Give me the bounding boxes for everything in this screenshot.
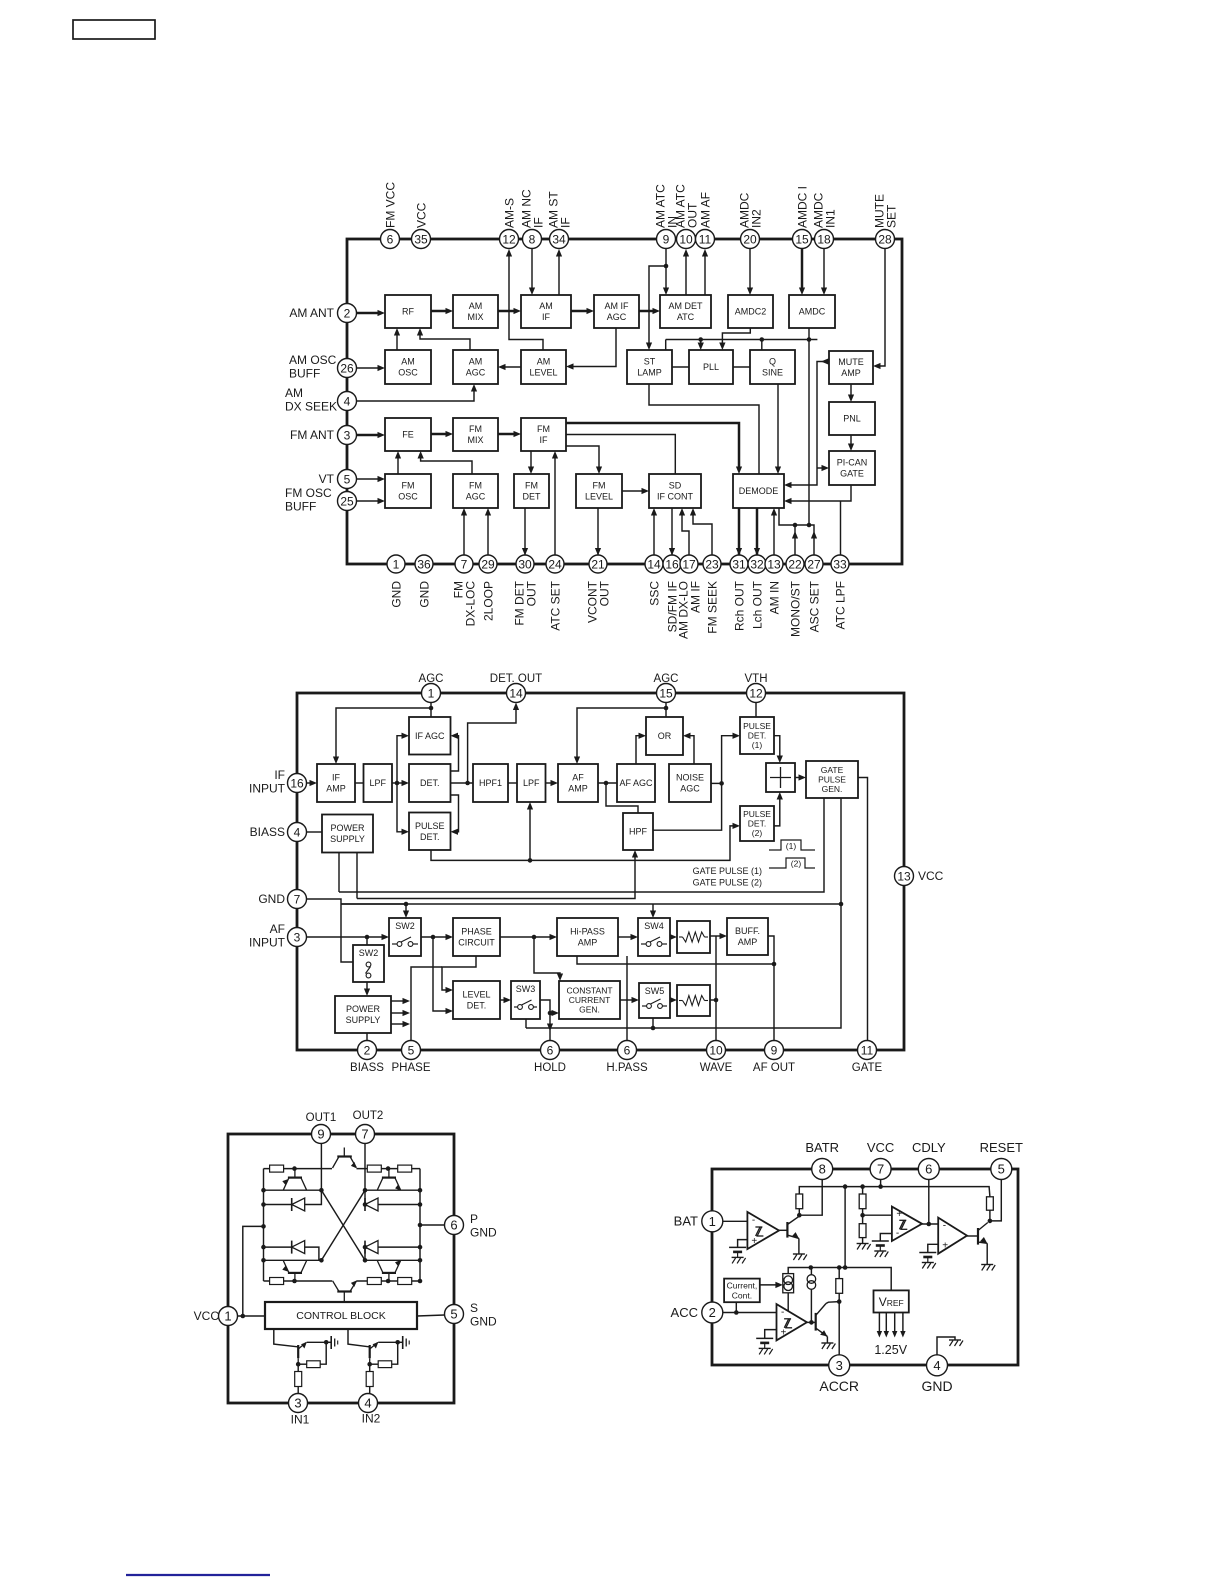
svg-text:AF: AF <box>572 773 584 783</box>
svg-text:23: 23 <box>705 557 719 571</box>
pin 7 OUT2 <box>356 1125 375 1144</box>
svg-text:LEVEL: LEVEL <box>529 368 557 378</box>
svg-text:AMP: AMP <box>738 937 758 947</box>
wire IF AMP to LPF <box>355 782 364 784</box>
diode D3 <box>292 1241 305 1254</box>
block LPF <box>364 764 393 802</box>
wire pin18 to AMDC <box>823 249 825 291</box>
wire Hi-PASS AMP to af out net <box>577 956 774 964</box>
transistor IN1 <box>298 1342 307 1364</box>
current source CS1 <box>783 1274 794 1293</box>
svg-text:AMDC: AMDC <box>799 307 826 317</box>
svg-text:LPF: LPF <box>369 778 386 788</box>
wire pin1 VCC to CONTROL BLOCK <box>238 1315 266 1317</box>
svg-text:AM DET: AM DET <box>668 301 703 311</box>
block FM DET <box>514 474 549 508</box>
wire R5 to pin3 ACCR <box>838 1293 840 1354</box>
svg-text:AMDC I: AMDC I <box>795 186 809 228</box>
svg-text:12: 12 <box>749 686 763 700</box>
svg-text:SSC: SSC <box>647 581 661 606</box>
wire pin17 to SD IF CONT <box>682 512 689 560</box>
block PULSE DET. (2) <box>740 806 774 841</box>
svg-text:GATE: GATE <box>852 1062 883 1074</box>
wire to diode D1 <box>264 1204 292 1206</box>
wire MUTE AMP to DEMODE <box>788 362 829 486</box>
current source CS2 <box>807 1275 816 1290</box>
wire pin25 to FM OSC <box>357 500 382 502</box>
svg-text:GND: GND <box>389 581 403 608</box>
capacitor ref A4 <box>756 1338 773 1348</box>
wire PHASE CIRCUIT to LEVEL DET <box>442 956 476 990</box>
svg-text:INPUT: INPUT <box>249 782 286 796</box>
svg-text:DEMODE: DEMODE <box>739 486 779 496</box>
pin 35 VCC <box>412 230 431 249</box>
wire to LPF bottom <box>529 806 531 860</box>
label AM-S <box>502 198 516 228</box>
wire PNL to PI-CAN GATE <box>850 435 852 447</box>
capacitor ref A3 ground <box>922 1263 936 1269</box>
transistor Q2 <box>978 1223 988 1245</box>
transistor Q4 left-bottom <box>282 1261 306 1281</box>
diode D4 <box>365 1241 378 1254</box>
wire bus to POWER SUPPLY <box>338 853 340 893</box>
svg-text:GND: GND <box>417 581 431 608</box>
pin 2 BIASS <box>358 1041 377 1060</box>
pin 2 ACC <box>702 1302 723 1323</box>
svg-text:AM: AM <box>537 357 551 367</box>
junction VCC <box>241 1314 246 1319</box>
wire pin4 GND lead <box>937 1337 955 1355</box>
svg-text:2: 2 <box>344 306 351 320</box>
pin 7 VCC <box>870 1159 891 1180</box>
wire pin5 VT to FM OSC <box>357 478 382 480</box>
wire Q3 emitter to ground <box>826 1337 828 1344</box>
svg-text:DX SEEK: DX SEEK <box>285 400 337 414</box>
resistor top-right 2 <box>398 1165 412 1172</box>
label AM DX-LO AM IF <box>677 581 703 639</box>
svg-text:AGC: AGC <box>466 368 486 378</box>
svg-text:AM: AM <box>469 301 483 311</box>
wire OUT2 lead <box>364 1144 366 1191</box>
pin 5 VT <box>338 470 357 489</box>
svg-text:POWER: POWER <box>346 1004 381 1014</box>
wire diode D1 out <box>305 1190 322 1204</box>
arrows POWER SUPPLY outputs <box>391 998 410 1027</box>
svg-text:13: 13 <box>767 557 781 571</box>
wire resistor to BUFF AMP <box>710 935 723 937</box>
svg-text:ATC SET: ATC SET <box>548 580 562 630</box>
svg-text:AMP: AMP <box>578 938 598 948</box>
block MUTE AMP <box>829 351 873 384</box>
wire AF out to HPF <box>606 783 638 813</box>
svg-text:5: 5 <box>344 472 351 486</box>
svg-text:GEN.: GEN. <box>822 784 843 794</box>
pin 26 AM OSC BUFF <box>338 359 357 378</box>
comparator A4 <box>777 1304 807 1340</box>
wire pin22 MONO/ST <box>794 525 796 560</box>
svg-text:IN1: IN1 <box>824 209 838 228</box>
svg-text:GND: GND <box>470 1315 497 1329</box>
wire AF AGC to OR <box>636 736 642 764</box>
svg-text:8: 8 <box>819 1162 826 1177</box>
wire pin7 VCC lead <box>880 1180 882 1187</box>
svg-text:S: S <box>470 1301 478 1315</box>
IC4 package outline <box>712 1169 1018 1365</box>
ground pin4 <box>949 1340 963 1346</box>
svg-text:PULSE: PULSE <box>818 775 846 785</box>
wire pin16 to IF AMP <box>307 782 314 784</box>
wire FM MIX to FM IF <box>498 433 517 436</box>
block GATE PULSE GEN. <box>806 761 858 798</box>
label ATC SET <box>548 580 562 630</box>
wire bus to ST LAMP <box>665 340 667 351</box>
wire FM IF to FM LEVEL <box>566 446 599 470</box>
wire A2 to A3 <box>922 1223 938 1225</box>
wire to HPF bottom <box>357 854 635 899</box>
wire SD IF CONT to pin16 <box>671 508 673 556</box>
pin 4 AM DX SEEK <box>338 392 357 411</box>
junction AGC <box>429 706 434 711</box>
svg-text:AGC: AGC <box>607 312 627 322</box>
svg-text:4: 4 <box>933 1358 940 1373</box>
junction CDLY <box>927 1222 932 1227</box>
label FM DX-LOC <box>452 581 478 627</box>
wire diode D2 out <box>378 1204 420 1206</box>
svg-text:RESET: RESET <box>980 1140 1023 1155</box>
wire tap to A2 <box>863 1214 892 1216</box>
svg-text:SW2: SW2 <box>359 948 379 958</box>
svg-text:7: 7 <box>361 1127 368 1142</box>
svg-text:+: + <box>751 1236 757 1247</box>
svg-text:BAT: BAT <box>674 1214 698 1229</box>
svg-text:GND: GND <box>470 1226 497 1240</box>
wire FM DET to pin30 <box>524 508 526 556</box>
svg-text:PULSE: PULSE <box>743 809 771 819</box>
svg-text:IF: IF <box>542 312 551 322</box>
junction AMDC mono bus <box>807 523 812 528</box>
junction A4 out <box>809 1320 814 1325</box>
wire to CONSTANT CURRENT GEN <box>534 937 560 977</box>
comparator A1 <box>747 1212 779 1249</box>
pin 32 Lch OUT <box>748 555 766 573</box>
junction hold <box>548 1011 553 1016</box>
transistor Q3 <box>816 1304 828 1337</box>
wire SW4 to resistor <box>670 936 673 938</box>
pin 9 AF OUT <box>765 1041 784 1060</box>
block POWER SUPPLY <box>322 815 373 853</box>
pin 11 GATE <box>858 1041 877 1060</box>
pin 13 AM IN <box>765 555 783 573</box>
wire A4 ref input <box>765 1330 777 1339</box>
diode D1 <box>292 1198 305 1211</box>
block PULSE DET. <box>409 813 451 851</box>
svg-text:AM IF: AM IF <box>605 301 630 311</box>
wire pin24 ATC SET to FM IF <box>554 455 556 560</box>
pin 6 FM VCC <box>381 230 400 249</box>
wire gnd stub <box>341 903 406 905</box>
label P GND <box>470 1212 497 1240</box>
wire AMDC down <box>808 328 810 525</box>
svg-text:FM: FM <box>593 481 606 491</box>
switch SW2 <box>389 918 421 956</box>
svg-text:32: 32 <box>750 557 764 571</box>
wire sum to GATE PULSE GEN <box>795 777 802 779</box>
resistor block 2 <box>677 985 710 1016</box>
svg-text:HPF: HPF <box>629 827 648 837</box>
block SD IF CONT <box>649 474 701 508</box>
pin 3 IN1 <box>289 1394 308 1413</box>
wire diode D4 tap <box>364 1247 366 1260</box>
junction divider tap <box>860 1213 865 1218</box>
label IF INPUT <box>249 768 286 796</box>
svg-text:17: 17 <box>682 557 696 571</box>
junction bus Q SINE <box>760 337 765 342</box>
wire pin1 AGC to IF AGC <box>430 693 432 717</box>
svg-text:14: 14 <box>509 686 523 700</box>
svg-text:AGC: AGC <box>466 492 486 502</box>
junction af out <box>772 962 777 967</box>
svg-text:6: 6 <box>387 232 394 246</box>
label AMDC IN1 <box>812 192 838 228</box>
wire lower rail <box>788 1268 891 1291</box>
svg-text:AM OSC: AM OSC <box>289 353 337 367</box>
junction AF input <box>365 935 370 940</box>
svg-text:GATE PULSE (1): GATE PULSE (1) <box>693 866 762 876</box>
transistor Q1 <box>787 1216 799 1238</box>
wire ctrl to SW5 <box>652 1018 654 1028</box>
pin 34 AM ST IF <box>550 230 569 249</box>
junction top-right <box>386 1166 391 1171</box>
junction left rail tap <box>261 1224 266 1229</box>
footer rule (blue) <box>126 1574 270 1576</box>
block PLL <box>689 350 733 384</box>
transistor Q5 right-bottom <box>377 1260 401 1281</box>
wire SW3 to pin6 HOLD <box>540 1000 550 1050</box>
svg-text:INPUT: INPUT <box>249 936 286 950</box>
wire pin3 to FE <box>357 434 382 437</box>
wire Q3 collector <box>826 1302 839 1304</box>
transistor Q3 right-top <box>377 1169 401 1191</box>
block DET. <box>409 764 451 802</box>
wire ST LAMP to DEMODE <box>649 384 759 474</box>
svg-text:Q: Q <box>769 357 776 367</box>
wire pin7 to FM AGC <box>463 512 465 560</box>
svg-text:IF: IF <box>332 773 341 783</box>
wire FM AGC to FE <box>421 455 472 474</box>
wire FM IF to FM DET <box>530 451 532 470</box>
svg-text:OUT1: OUT1 <box>306 1112 337 1124</box>
svg-text:AMDC2: AMDC2 <box>735 307 767 317</box>
wire pin28 MUTE SET to MUTE AMP <box>877 249 885 366</box>
svg-text:OUT: OUT <box>525 580 539 606</box>
label FM SEEK <box>705 581 719 634</box>
block LPF <box>517 764 546 802</box>
wire R4 to Q2 <box>989 1210 991 1221</box>
wire PULSE DET 1 to sum <box>774 736 780 759</box>
block AF AGC <box>617 764 655 802</box>
wire Q SINE to DEMODE <box>777 384 779 470</box>
svg-text:MIX: MIX <box>467 312 483 322</box>
wire R1 to Q1 collector <box>798 1209 800 1216</box>
wire pin1 BAT to A1 <box>723 1220 748 1222</box>
arrows VREF outputs <box>877 1313 906 1338</box>
wire AM DET ATC to pin11 <box>704 253 706 295</box>
svg-text:PULSE: PULSE <box>415 821 445 831</box>
svg-text:SD: SD <box>669 481 682 491</box>
svg-text:Hi-PASS: Hi-PASS <box>570 927 605 937</box>
svg-text:4: 4 <box>364 1396 371 1411</box>
svg-text:RF: RF <box>402 307 414 317</box>
block AM AGC <box>453 350 498 384</box>
wire FE to FM MIX <box>431 433 449 436</box>
pin 23 FM SEEK <box>703 555 721 573</box>
block LEVEL DET. <box>453 981 500 1019</box>
wire AM DET ATC to pin10 <box>685 253 687 295</box>
svg-text:AMP: AMP <box>841 368 861 378</box>
block POWER SUPPLY <box>335 996 391 1033</box>
junction base IN1 <box>296 1362 301 1367</box>
pin 16 SD/FM IF <box>663 555 681 573</box>
wire rail to CS2 <box>810 1269 812 1275</box>
svg-text:FM: FM <box>525 481 538 491</box>
svg-text:6: 6 <box>925 1162 932 1177</box>
junction ACCR <box>837 1299 842 1304</box>
wire FM LEVEL to pin21 <box>597 508 599 556</box>
junction top-left <box>292 1166 297 1171</box>
wire top left run <box>264 1168 333 1170</box>
svg-text:AM-S: AM-S <box>502 198 516 228</box>
svg-text:OSC: OSC <box>398 492 418 502</box>
junction CS2 <box>809 1265 814 1270</box>
pin 8 AM NC IF <box>523 230 542 249</box>
svg-text:6: 6 <box>450 1218 457 1233</box>
label AF INPUT <box>249 922 286 950</box>
svg-text:-: - <box>896 1228 899 1239</box>
junction gate bus <box>839 902 844 907</box>
wire diode D3 out <box>305 1247 319 1260</box>
wire Q1 emitter to ground <box>798 1238 800 1254</box>
resistor R2 <box>859 1194 866 1209</box>
svg-text:AGC: AGC <box>419 673 444 685</box>
arrow pin27 ASC SET <box>811 531 817 539</box>
summing node <box>766 763 795 792</box>
svg-text:AM: AM <box>469 357 483 367</box>
block AM IF AGC <box>594 295 639 328</box>
svg-text:25: 25 <box>340 494 354 508</box>
junction SW2 top <box>404 902 409 907</box>
wire DET to PULSE DET <box>451 795 459 832</box>
svg-text:BIASS: BIASS <box>250 825 285 839</box>
junction bus PLL <box>698 337 703 342</box>
svg-text:3: 3 <box>294 1396 301 1411</box>
waveform gate pulse 2 <box>769 858 815 868</box>
svg-text:GEN.: GEN. <box>579 1005 600 1015</box>
svg-text:5: 5 <box>450 1307 457 1322</box>
svg-text:8: 8 <box>529 232 536 246</box>
wire cross diagonal 1 <box>321 1190 365 1260</box>
pin 3 AF INPUT <box>288 928 307 947</box>
resistor R3 <box>859 1224 866 1238</box>
svg-text:CONSTANT: CONSTANT <box>566 986 612 996</box>
svg-text:LEVEL: LEVEL <box>462 990 490 1000</box>
switch SW2 <box>353 945 384 982</box>
svg-text:+: + <box>942 1241 948 1252</box>
pin 6 HOLD <box>541 1041 560 1060</box>
svg-text:31: 31 <box>732 557 746 571</box>
junction LPF feed <box>528 858 533 863</box>
junction rail drop <box>843 1265 848 1270</box>
wire DEMODE to pin31 Rch OUT <box>738 508 741 556</box>
wire ctrl to SW3 <box>525 1019 527 1028</box>
svg-text:OUT: OUT <box>598 580 612 606</box>
pin 6 H.PASS <box>618 1041 637 1060</box>
junction R5 <box>837 1265 842 1270</box>
svg-text:FM SEEK: FM SEEK <box>705 581 719 634</box>
svg-text:DET. OUT: DET. OUT <box>490 673 542 685</box>
svg-text:AM ANT: AM ANT <box>289 306 334 320</box>
junction AMDC bus <box>807 337 812 342</box>
resistor input IN1 <box>295 1372 302 1387</box>
wire bottom left run <box>264 1280 333 1282</box>
pin 9 OUT1 <box>312 1125 331 1144</box>
svg-text:ST: ST <box>644 357 656 367</box>
svg-text:24: 24 <box>548 557 562 571</box>
IC3 package outline <box>228 1134 454 1403</box>
label FM OSC BUFF <box>285 486 332 514</box>
svg-text:FM: FM <box>402 481 415 491</box>
input cell IN2 <box>348 1329 409 1394</box>
label ATC LPF <box>833 581 847 629</box>
wire A3 ref input <box>928 1244 938 1252</box>
wire AM LEVEL to AM AGC <box>502 366 521 368</box>
wire rail to R5 <box>838 1268 840 1279</box>
svg-text:1: 1 <box>393 557 400 571</box>
pin 4 GND <box>927 1355 948 1376</box>
wire pin6 HPASS to Hi-PASS AMP <box>626 956 628 1050</box>
svg-text:2: 2 <box>364 1043 371 1057</box>
transistor IN2 <box>370 1342 379 1364</box>
svg-text:IF: IF <box>559 217 573 228</box>
block AM OSC <box>385 350 431 384</box>
svg-text:BUFF: BUFF <box>285 500 316 514</box>
label VCONT OUT <box>586 580 612 623</box>
wire PULSE DET 2 to sum <box>774 796 780 826</box>
label AM ATC OUT <box>674 184 700 228</box>
label ASC SET <box>807 580 821 632</box>
junction SW2 out <box>431 935 436 940</box>
label FM VCC <box>383 182 397 228</box>
svg-text:SUPPLY: SUPPLY <box>346 1015 381 1025</box>
svg-text:(2): (2) <box>791 859 802 869</box>
wire ACC to Current Cont <box>735 1302 737 1312</box>
resistor top-right 1 <box>367 1165 381 1172</box>
svg-text:AF AGC: AF AGC <box>619 778 653 788</box>
svg-text:HPF1: HPF1 <box>479 778 502 788</box>
block HPF1 <box>473 764 508 802</box>
svg-text:OUT2: OUT2 <box>353 1110 384 1122</box>
svg-text:VTH: VTH <box>745 673 768 685</box>
svg-text:4: 4 <box>344 394 351 408</box>
svg-text:35: 35 <box>414 232 428 246</box>
wire bus to PLL <box>700 340 702 347</box>
wire pin13 AM IN to DEMODE <box>773 512 775 560</box>
pin 21 VCONT OUT <box>589 555 607 573</box>
junction bottom-left <box>292 1279 297 1284</box>
label AMDC I <box>795 186 809 228</box>
capacitor ref A1 ground <box>732 1257 746 1263</box>
wire DET to HPF1 <box>451 782 474 784</box>
wire POWER SUPPLY to pin2 BIASS <box>366 1033 368 1050</box>
